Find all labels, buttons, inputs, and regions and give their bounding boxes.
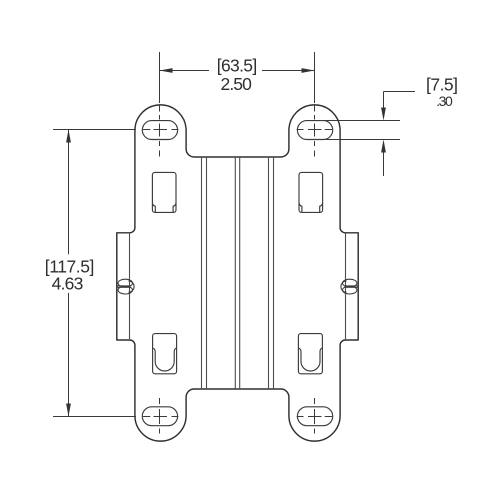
svg-text:2.50: 2.50 bbox=[221, 74, 253, 94]
svg-text:[7.5]: [7.5] bbox=[426, 75, 458, 95]
svg-text:.30: .30 bbox=[436, 93, 453, 109]
svg-text:4.63: 4.63 bbox=[52, 274, 84, 294]
svg-text:[63.5]: [63.5] bbox=[217, 55, 258, 75]
